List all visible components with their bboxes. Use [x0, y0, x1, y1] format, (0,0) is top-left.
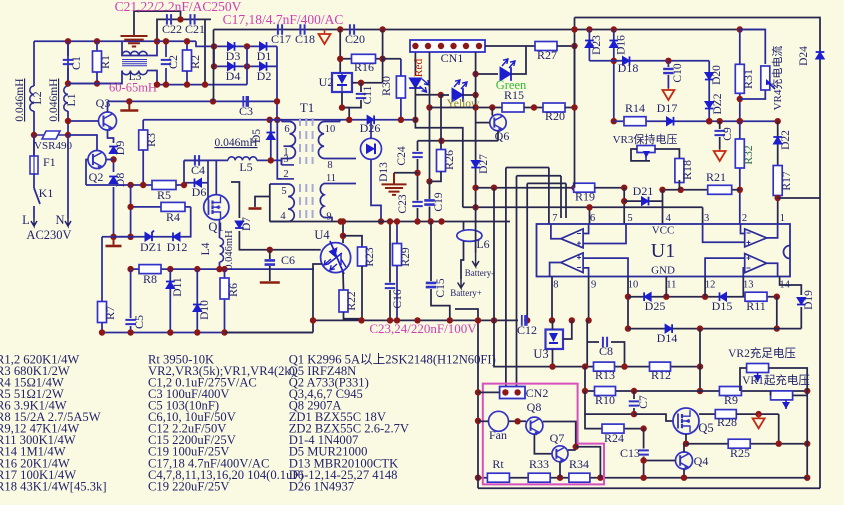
wire R6 column [224, 269, 226, 332]
junctions left rail [475, 317, 481, 424]
wire R10 row [584, 367, 586, 391]
svg-text:F1: F1 [43, 155, 56, 169]
junction pin6 row [586, 204, 592, 210]
svg-text:D24: D24 [798, 46, 810, 66]
wire C15 bottom [431, 289, 450, 320]
wire pin6 top [270, 120, 282, 122]
junction VSR right [65, 132, 71, 138]
resistor R14 [624, 117, 646, 126]
resistor R22 [339, 290, 348, 312]
wire C8 right [611, 342, 625, 367]
diode D20 [705, 73, 714, 80]
wire R28 corner down [778, 414, 780, 444]
svg-text:R26: R26 [442, 150, 456, 170]
junction R19 right [621, 185, 627, 191]
svg-text:D21: D21 [633, 184, 654, 198]
capacitor C7 [629, 401, 640, 405]
wire pin11 column [665, 277, 667, 297]
svg-text:13: 13 [743, 280, 754, 291]
wire D5 column [270, 120, 272, 161]
diode D5 [266, 133, 275, 140]
capacitor C19 column [429, 181, 431, 199]
wire D21 row [624, 200, 662, 202]
core L3 [122, 60, 147, 66]
diode D22 [773, 137, 782, 144]
wire VR4 bottom [740, 90, 766, 99]
wire R8 row [131, 268, 314, 270]
junctions D16 column [611, 58, 617, 125]
junction R1 top [94, 38, 100, 44]
resistor Rt body [487, 473, 509, 482]
wire Q7 right [568, 449, 576, 451]
wire R12 col down [699, 329, 701, 391]
svg-text:R9: R9 [724, 393, 738, 407]
svg-text:Battery-: Battery- [465, 268, 495, 278]
wire pin7 col [548, 168, 550, 225]
wire outer top rail [575, 18, 821, 489]
wire D9 to Q2 node [113, 157, 115, 172]
svg-text:R7: R7 [103, 306, 117, 320]
wire R4 row [131, 206, 191, 208]
junction C11 top [358, 80, 364, 86]
wire A1 input pin5 [583, 224, 626, 244]
svg-text:Rt: Rt [492, 457, 504, 471]
transistor Q7 symbol [552, 446, 568, 464]
junction jungle col bus [524, 317, 530, 323]
wire Q4 base [644, 460, 676, 462]
junctions bottom row [475, 475, 687, 481]
wire R11 right down [776, 297, 778, 329]
svg-text:10: 10 [628, 280, 639, 291]
wire L5 row [184, 159, 228, 161]
transformer T1 winding 11-9 [320, 184, 356, 222]
resistor R10 [595, 387, 616, 396]
svg-text:L: L [22, 213, 30, 227]
wire D25 D15 R11 row [628, 296, 777, 298]
wire pin6 stub [589, 207, 591, 224]
resistor R15 [502, 103, 524, 112]
junctions CN1 pin2 column [426, 104, 432, 184]
junction VR1 rail [804, 388, 810, 394]
svg-text:8: 8 [553, 280, 558, 291]
resistor R8 [139, 265, 161, 274]
capacitor C23 [412, 202, 423, 206]
terminal L arrow [31, 218, 37, 226]
junction R28 marker [755, 411, 761, 417]
wire R1 top stub [96, 41, 98, 51]
LED Red [414, 52, 416, 76]
svg-text:U1: U1 [651, 240, 675, 262]
wire R19 right link [595, 187, 625, 189]
wire fan left [478, 420, 489, 422]
svg-text:R1: R1 [98, 55, 112, 69]
wire R10 row main [585, 390, 700, 392]
svg-text:C10: C10 [672, 63, 684, 82]
svg-text:C23,24/220nF/100V: C23,24/220nF/100V [369, 321, 477, 336]
resistor R31 [735, 64, 744, 93]
wire U4 emitter down [342, 272, 345, 290]
wire C8 left [587, 341, 599, 343]
junction C1 top [65, 38, 71, 44]
ground bar DZ1 [106, 245, 122, 248]
junctions R27 column [571, 26, 577, 110]
LED D Yellow [452, 88, 463, 102]
diode D6 [195, 178, 202, 187]
svg-text:D3: D3 [226, 49, 241, 63]
red triangle R28 [753, 418, 765, 428]
resistor R6 [220, 278, 229, 299]
wire R14 row [614, 120, 778, 122]
pot VR1 body [771, 391, 793, 400]
wire R27 column [574, 18, 576, 188]
svg-text:C15: C15 [435, 278, 447, 297]
wire Q8 right [543, 422, 576, 447]
wire D14 row [628, 328, 801, 330]
wire bridge right vertical [276, 46, 278, 119]
diode D17 [667, 117, 674, 126]
svg-text:R29: R29 [400, 247, 412, 266]
svg-text:6: 6 [284, 124, 289, 135]
pot VR2 body [747, 364, 769, 373]
svg-text:R31: R31 [741, 69, 755, 89]
wire VR1 right [793, 394, 808, 396]
svg-text:D23: D23 [591, 35, 603, 55]
wire R30 column [400, 59, 402, 120]
svg-text:R11: R11 [746, 299, 766, 313]
capacitor C21 [190, 14, 194, 25]
junction Q2 D9 [110, 156, 116, 162]
junction D21 left [621, 198, 627, 204]
wire Q6 top to R15 [491, 108, 493, 116]
wire R24 row [585, 414, 644, 429]
wire R4 left vertical [130, 185, 132, 237]
svg-text:2: 2 [283, 169, 288, 180]
junctions bridge left [211, 43, 217, 69]
transformer T1 winding 5-4 [270, 184, 294, 222]
wire C2 bottom [165, 68, 167, 84]
wire C2 branch [165, 41, 167, 57]
svg-text:11: 11 [666, 280, 676, 291]
junction R9 row [697, 388, 703, 394]
junction DZ2 bottom [706, 118, 712, 124]
red triangle C9 [714, 151, 726, 161]
pot VR4 body [761, 66, 770, 90]
ground stub below D8 [113, 237, 115, 245]
wire lower horizontal under C1 R1 [68, 83, 122, 85]
svg-text:L6: L6 [476, 237, 489, 251]
T1 pin 3 stub [282, 164, 295, 166]
schottky D13 circle [361, 138, 382, 159]
junctions C20 [337, 26, 386, 32]
wire Q8 emitter to Q7 base [534, 434, 552, 454]
wire D7 to C6 row [239, 231, 269, 250]
wire pin5 lead down [269, 184, 271, 222]
choke L3 bottom winding [122, 71, 147, 75]
resistor R5 [152, 181, 176, 190]
fuse F1 [33, 135, 35, 156]
op-amp A2 [561, 253, 583, 273]
svg-text:C19 220uF/25V: C19 220uF/25V [148, 479, 230, 493]
svg-text:C6: C6 [281, 253, 295, 267]
wire Q2 emitter left down [86, 160, 88, 186]
svg-text:5: 5 [281, 186, 286, 197]
wire pin3 column [702, 207, 704, 224]
wire CN2 left [478, 391, 500, 393]
capacitor C6 [265, 260, 276, 264]
junctions R10 row [582, 388, 637, 394]
svg-text:R13: R13 [595, 368, 615, 382]
wire Q5 gate row [634, 414, 673, 421]
wire pin5 column [623, 188, 625, 224]
wire col 494 to bus [493, 188, 495, 321]
wire VR2 left [740, 368, 747, 391]
wire L4 to R8 row [219, 262, 221, 269]
varistor VSR490 [34, 131, 68, 139]
wire D27 column [475, 158, 477, 207]
wire bottom-left bus right part [225, 332, 313, 334]
wire bridge mid vertical [246, 46, 248, 84]
svg-text:D12: D12 [167, 240, 188, 254]
wire C21 to right down [204, 19, 206, 85]
wire Q7 emitter [559, 462, 561, 478]
wire Q3 top [107, 101, 109, 112]
capacitor C16 [385, 284, 396, 288]
junction R21 right [737, 187, 743, 193]
wire C23 bottom [417, 208, 419, 222]
svg-text:D4: D4 [226, 69, 241, 83]
wire D10 column [196, 269, 198, 332]
junction R29 top [394, 218, 400, 224]
T1 pin 1 tap stub [284, 145, 290, 147]
svg-text:Q8: Q8 [527, 400, 542, 414]
fan motor [489, 411, 509, 431]
svg-text:Q4: Q4 [694, 454, 709, 468]
wire jungle col CN2 right [516, 176, 518, 393]
wire y183 right col [565, 183, 567, 218]
wire left feed vertical [213, 30, 215, 102]
wire D7 column top [231, 182, 239, 218]
svg-text:R3: R3 [144, 133, 158, 147]
svg-text:U2: U2 [319, 75, 334, 89]
wire pin8 column [551, 277, 553, 321]
wire Q6 bottom [497, 131, 499, 141]
svg-text:N: N [55, 213, 64, 227]
svg-text:8: 8 [327, 160, 332, 171]
wire C5 column [130, 269, 132, 318]
wire D6 node to Q1 gate [183, 183, 185, 185]
svg-text:D22: D22 [780, 130, 792, 150]
op-amp A1 [561, 229, 583, 248]
wire DZ1 D12 row [114, 207, 191, 237]
junctions lower-mid bus [310, 317, 497, 323]
junction D5 bottom [268, 157, 274, 163]
wire C3 row [213, 100, 277, 102]
transformer core dashes lower [300, 184, 313, 220]
resistor R7 [98, 302, 107, 323]
junctions R8 row [127, 266, 227, 272]
svg-text:R19: R19 [575, 190, 595, 204]
svg-text:R16: R16 [354, 60, 374, 74]
diode D19 [797, 298, 806, 305]
zener DZ1 [145, 230, 154, 241]
wire CN1 pin2 column [429, 52, 431, 181]
wire Q2 top to VSR row [68, 135, 97, 151]
wire R15 row left extension [430, 107, 476, 109]
svg-text:VR2充足电压: VR2充足电压 [728, 346, 796, 360]
svg-text:D27: D27 [478, 154, 490, 174]
wire pin2 to mid row [277, 120, 281, 179]
wire R7 top [101, 237, 103, 302]
wire N rail vertical upper [67, 41, 69, 86]
wire L1 down [67, 111, 69, 135]
wire C16 column [389, 222, 391, 283]
svg-text:Q7: Q7 [550, 431, 565, 445]
svg-text:Fan: Fan [489, 428, 507, 442]
terminal N arrow [67, 191, 69, 218]
wire C7 loop bottom [585, 391, 634, 414]
svg-text:3: 3 [283, 154, 288, 165]
svg-text:D18: D18 [618, 61, 639, 75]
ground stub red [128, 101, 130, 109]
svg-text:10: 10 [325, 124, 336, 135]
svg-text:D9: D9 [113, 141, 127, 156]
diode D25 [644, 292, 651, 301]
wire R3 top [142, 120, 144, 130]
svg-text:R6: R6 [226, 283, 240, 297]
wire D13 column [370, 120, 372, 139]
junction top wire right [154, 38, 160, 44]
junctions R25 row [776, 441, 811, 447]
svg-text:D11: D11 [172, 277, 184, 297]
svg-text:C12: C12 [517, 323, 537, 337]
inductor L5 [228, 157, 257, 161]
wire C11 column [360, 83, 362, 92]
wire A4 input pin13 [743, 268, 744, 277]
wire C11 bottom [342, 100, 361, 108]
svg-text:R20: R20 [545, 109, 565, 123]
capacitor C9 [714, 131, 725, 135]
wire D8 down to gate row [113, 187, 115, 237]
wire Q1 source down to L4 [219, 220, 221, 238]
wire R15 row [476, 107, 503, 109]
svg-text:C17: C17 [271, 32, 291, 46]
capacitor C18 [300, 24, 304, 35]
resistor R33 [528, 473, 550, 482]
svg-text:C7: C7 [638, 395, 650, 409]
wire jungle row y167 [506, 167, 549, 169]
svg-text:C24: C24 [396, 146, 408, 165]
svg-text:VSR490: VSR490 [34, 140, 72, 152]
capacitor C22 [167, 14, 171, 25]
wire U3 right [563, 320, 572, 339]
svg-text:C3: C3 [239, 104, 253, 118]
capacitor C15 [426, 283, 437, 287]
svg-text:R18 43K1/4W[45.3k]: R18 43K1/4W[45.3k] [0, 479, 107, 493]
svg-text:C21: C21 [185, 22, 205, 36]
svg-text:6: 6 [590, 213, 595, 224]
wire R15 R20 mid [524, 107, 543, 109]
wire C1 bottom [67, 68, 69, 84]
junction pin8 bus [549, 317, 555, 323]
svg-text:L5: L5 [239, 160, 252, 174]
svg-text:R30: R30 [379, 76, 393, 96]
wire R13 row [494, 320, 700, 366]
wire D20 column [708, 61, 710, 121]
wire C6 column [269, 250, 271, 259]
wire Q2 collector [106, 159, 114, 161]
wire bottom outer rail [478, 487, 820, 489]
wire C5 bottom [130, 326, 132, 333]
svg-text:D17: D17 [657, 101, 678, 115]
junction D8 gate row [110, 234, 116, 240]
wire R2 bottom [186, 71, 188, 84]
wire N below VSR [67, 135, 69, 191]
diode D23 [585, 41, 594, 48]
svg-text:0.046mH: 0.046mH [214, 137, 257, 149]
junction R26 top [438, 138, 444, 144]
wire A1 output to pin7 [551, 224, 561, 239]
svg-text:C23: C23 [397, 194, 409, 213]
parts list column 3 [289, 353, 496, 494]
wire C4 D6 right join [207, 160, 209, 182]
wire R17 to outer rail [778, 197, 820, 199]
wire A3 input pin3 [703, 224, 745, 242]
wire DZ1 left vertical to R7 [102, 236, 131, 238]
svg-text:R14: R14 [625, 101, 645, 115]
svg-text:D16: D16 [616, 35, 628, 55]
resistor R2 [183, 50, 192, 71]
wire R9 row [700, 390, 807, 392]
svg-text:C18: C18 [295, 32, 315, 46]
wire R5 right to C4 D6 node [176, 160, 184, 185]
wire U2 bottom [342, 92, 349, 120]
transistor Q2 [88, 151, 106, 170]
wire U3 top [552, 320, 554, 329]
transistor Q4 [676, 452, 693, 471]
svg-text:3: 3 [704, 213, 709, 224]
wire VR3 right to R18 [655, 149, 679, 160]
red marker triangle C10 [667, 88, 669, 90]
junction U4 R23 top [340, 233, 346, 239]
choke L3 top winding [122, 51, 147, 55]
wire VR3 left bracket [631, 149, 650, 161]
wire L6 lower to battery plus [461, 241, 464, 279]
resistor R34 [569, 473, 590, 482]
connector CN2 [500, 387, 525, 399]
junction DZ1 row left [127, 234, 133, 240]
ground earth top [121, 36, 148, 47]
wire VR4 bracket top [740, 30, 766, 65]
ground bar Q3 [120, 109, 138, 112]
svg-text:D13: D13 [378, 162, 390, 182]
svg-text:C2: C2 [166, 55, 180, 69]
junction bridge bottom mid [244, 63, 250, 69]
junction ground caps row [177, 16, 183, 22]
diode D10 [193, 305, 202, 312]
wire A3 output pin1 [767, 224, 778, 238]
wire L5 right [257, 160, 282, 165]
connector CN1 [410, 40, 485, 52]
wire U4 left bottom [313, 264, 322, 320]
junctions R11 row [663, 294, 780, 300]
red triangle marker top [319, 34, 331, 44]
junctions bottom-left bus [99, 329, 228, 335]
wire C7 bottom [633, 408, 635, 414]
resistor R24 [602, 424, 624, 433]
wire U4 collector from bus [342, 222, 344, 244]
wire to ground mid [394, 172, 418, 174]
capacitor C2 [161, 60, 172, 64]
